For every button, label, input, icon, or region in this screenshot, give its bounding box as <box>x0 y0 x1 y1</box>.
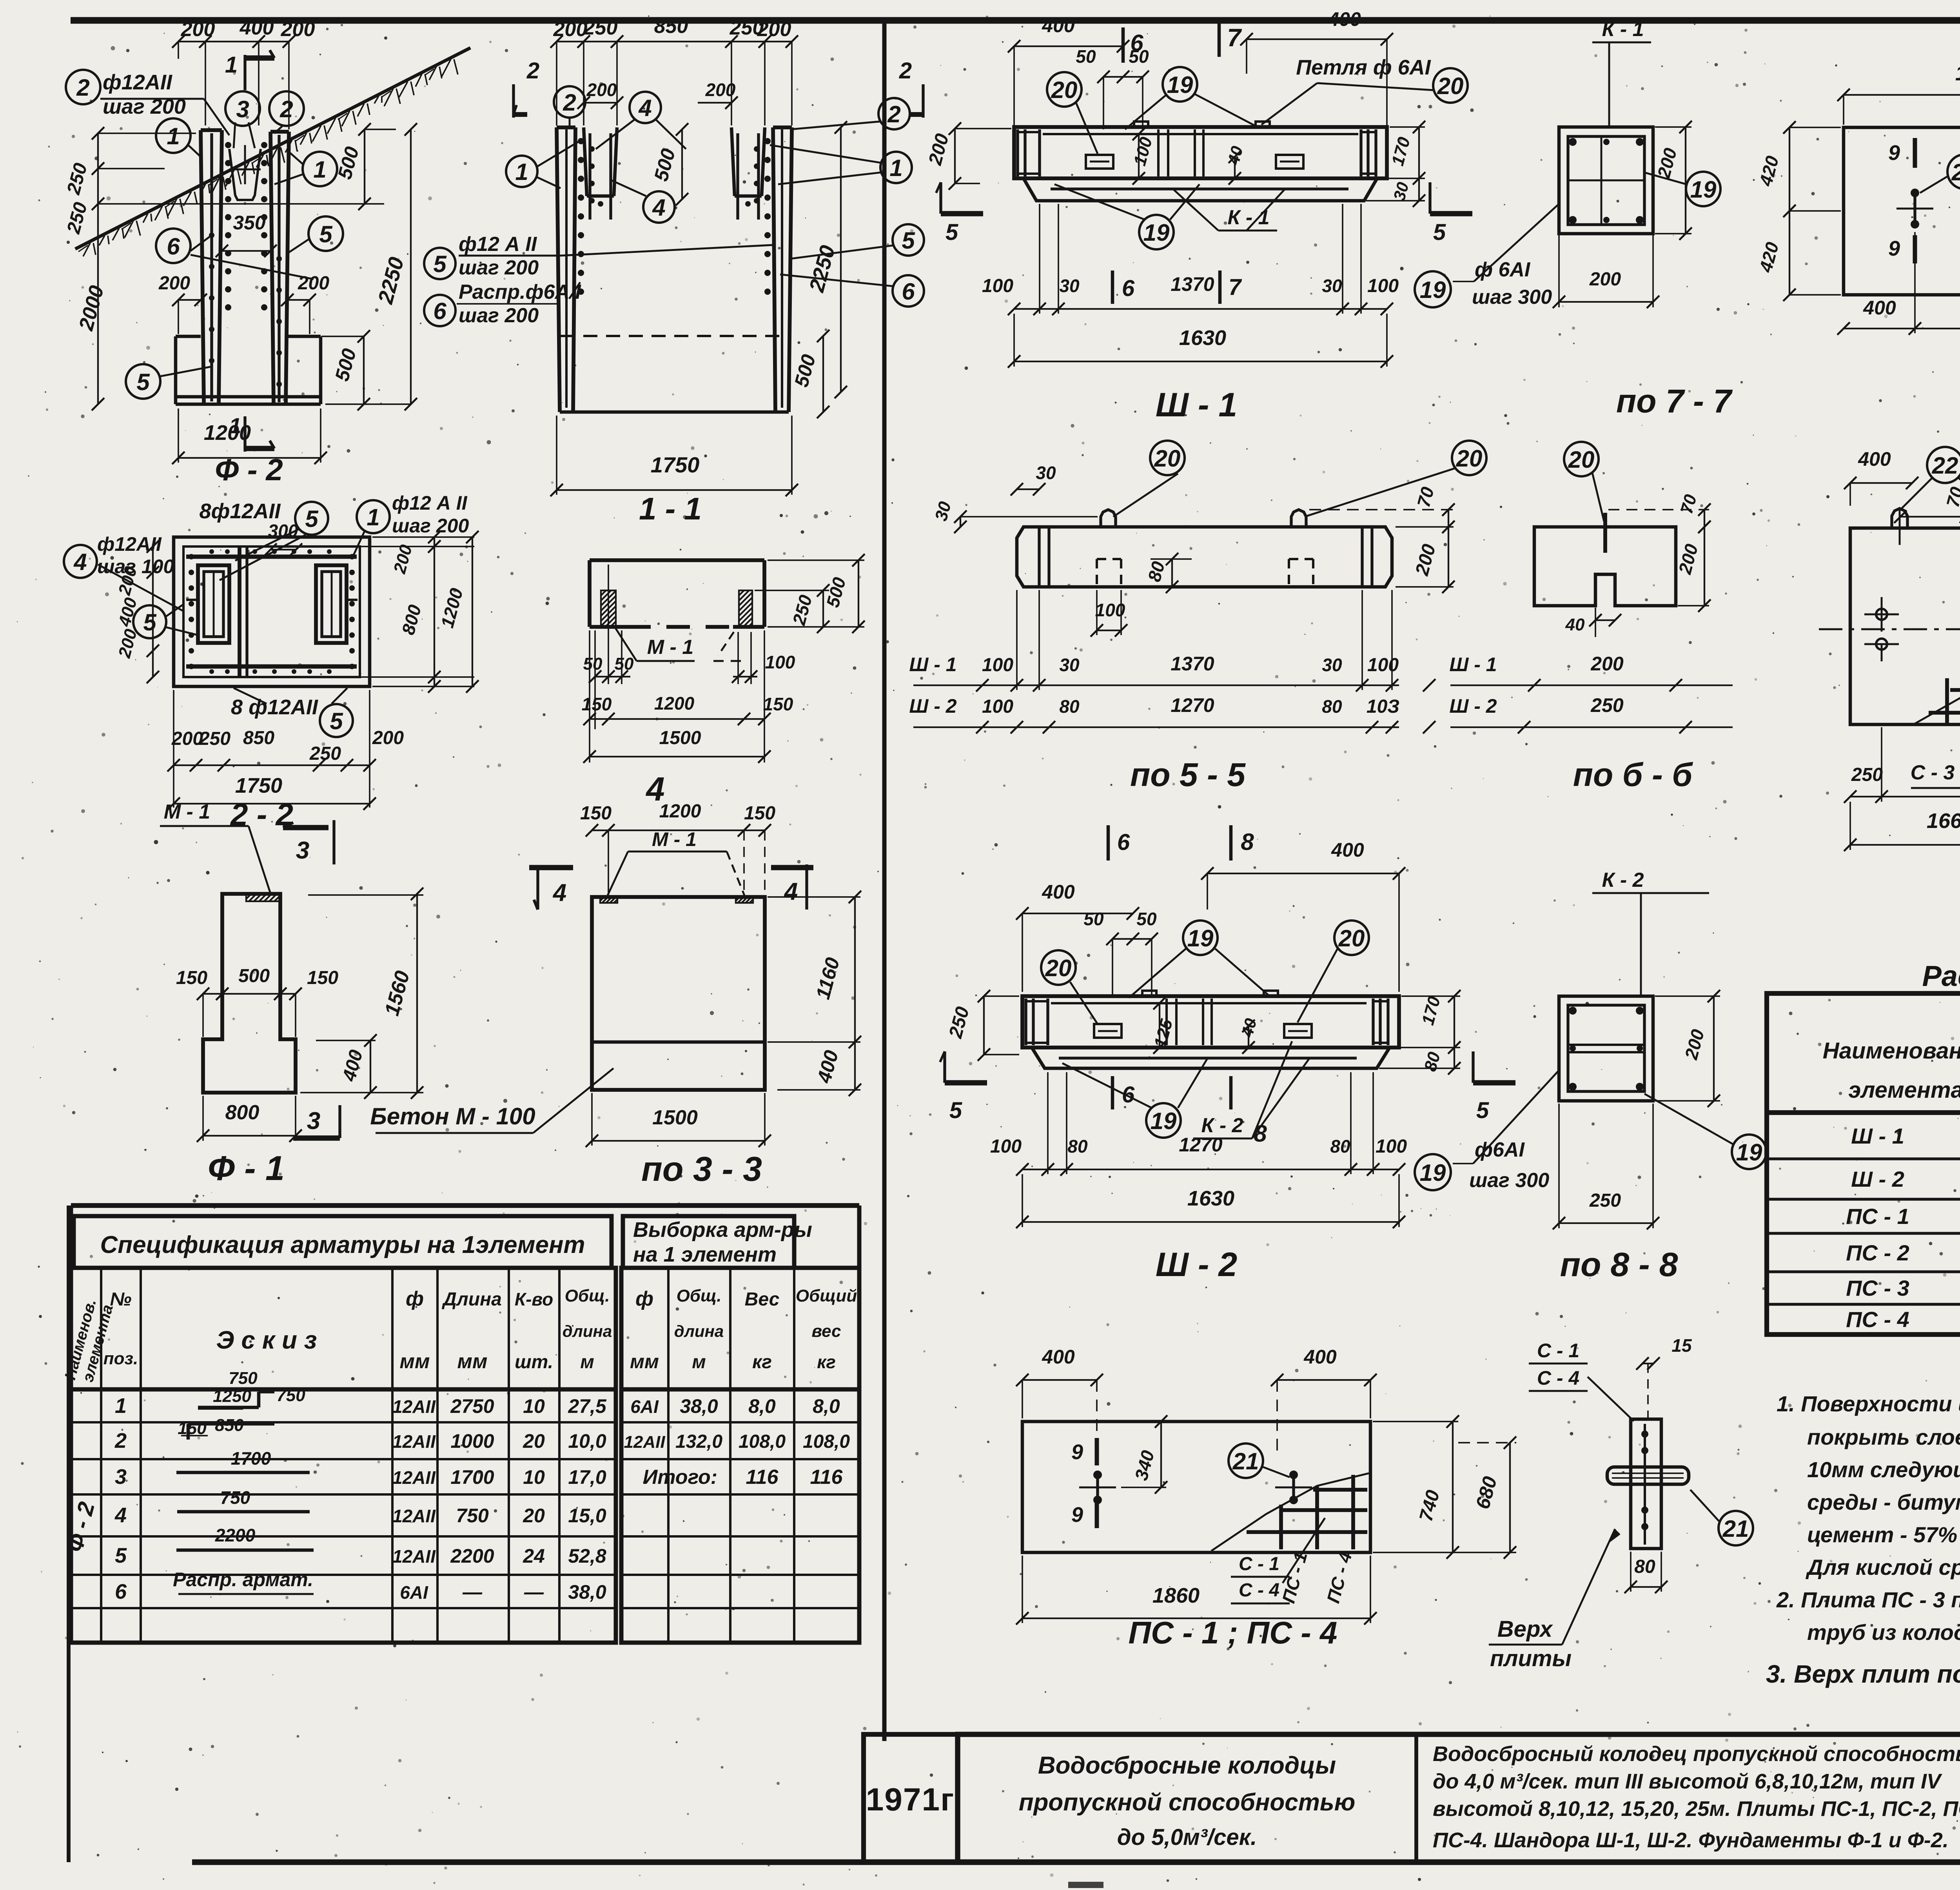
svg-text:80: 80 <box>1330 1136 1350 1157</box>
svg-text:кг: кг <box>817 1352 836 1372</box>
svg-text:5: 5 <box>330 708 343 734</box>
svg-text:200: 200 <box>586 80 617 100</box>
svg-text:200: 200 <box>281 18 315 41</box>
svg-text:200: 200 <box>757 18 791 41</box>
spec vyborka header box <box>623 1216 794 1268</box>
svg-text:Водосбросный колодец пропуск: Водосбросный колодец пропускной способно… <box>1433 1742 1960 1766</box>
svg-text:м: м <box>580 1352 594 1373</box>
1-1 callout 6 note <box>424 295 456 326</box>
svg-text:2: 2 <box>114 1429 127 1452</box>
svg-text:Ш - 1: Ш - 1 <box>1156 386 1237 424</box>
2-2 inner rect <box>183 546 360 677</box>
svg-text:7: 7 <box>1229 274 1242 300</box>
svg-text:1660: 1660 <box>1927 809 1960 833</box>
svg-text:20: 20 <box>1051 77 1078 103</box>
Ш-2 section 6 top <box>1107 825 1110 861</box>
svg-text:шт.: шт. <box>515 1352 553 1373</box>
svg-text:К - 2: К - 2 <box>1602 869 1644 891</box>
svg-text:плиты: плиты <box>1490 1646 1572 1671</box>
svg-text:19: 19 <box>1690 176 1717 203</box>
svg-text:по 8 - 8: по 8 - 8 <box>1560 1246 1678 1284</box>
svg-text:ф: ф <box>406 1287 424 1310</box>
svg-text:200: 200 <box>171 728 203 749</box>
svg-text:длина: длина <box>674 1322 724 1340</box>
raskhod table grid <box>1767 993 1960 1334</box>
M-1 plate bar <box>590 558 764 562</box>
1-1 callout 4 upper <box>630 92 661 123</box>
svg-text:Общ.: Общ. <box>677 1286 722 1305</box>
svg-text:750: 750 <box>456 1505 489 1527</box>
по5-5 end lines <box>1038 527 1040 587</box>
svg-text:М - 1: М - 1 <box>647 636 693 659</box>
ПС-3 hole bottom-left <box>1876 639 1887 650</box>
Ф-2 funnel between walls <box>229 149 261 200</box>
svg-text:Бетон М - 100: Бетон М - 100 <box>370 1103 535 1129</box>
Ф-2 section mark 1 bottom <box>243 416 246 452</box>
svg-text:1630: 1630 <box>1179 326 1226 350</box>
svg-text:К - 1: К - 1 <box>1602 18 1644 41</box>
по5-5 beam outline <box>1017 527 1392 587</box>
svg-text:400: 400 <box>1042 881 1075 903</box>
svg-text:150: 150 <box>176 968 207 988</box>
svg-text:К-во: К-во <box>515 1289 553 1309</box>
svg-text:мм: мм <box>457 1350 488 1373</box>
svg-text:3: 3 <box>115 1465 127 1489</box>
svg-text:Общ.: Общ. <box>565 1286 610 1305</box>
ПС-2 plate <box>1844 127 1960 295</box>
svg-text:6: 6 <box>115 1580 127 1603</box>
svg-text:150: 150 <box>763 694 793 714</box>
svg-text:4: 4 <box>73 549 87 575</box>
1-1 callout 6 right <box>893 275 924 307</box>
sheet top border <box>71 17 1960 24</box>
svg-text:6АI: 6АI <box>400 1582 428 1603</box>
ПС-3 plate <box>1850 528 1960 724</box>
svg-text:200: 200 <box>705 80 736 100</box>
svg-text:200: 200 <box>158 273 190 294</box>
svg-text:1: 1 <box>167 123 180 149</box>
по3-3 section 4 right <box>771 865 813 870</box>
svg-text:750: 750 <box>229 1369 258 1388</box>
svg-text:12АII: 12АII <box>392 1546 436 1567</box>
svg-text:—: — <box>462 1581 483 1603</box>
svg-text:шаг 200: шаг 200 <box>392 515 469 537</box>
Ф-2 callout 6 <box>156 229 191 263</box>
svg-text:1860: 1860 <box>1152 1584 1200 1607</box>
Ф-2 left wall <box>201 130 204 403</box>
svg-text:элемента: элемента <box>1848 1077 1960 1103</box>
svg-text:100: 100 <box>1367 655 1399 675</box>
svg-text:10: 10 <box>523 1395 545 1417</box>
svg-text:500: 500 <box>238 966 270 986</box>
svg-text:4: 4 <box>114 1503 127 1527</box>
svg-text:2: 2 <box>76 74 89 101</box>
Ш-2 section 6 bottom <box>1111 1076 1114 1109</box>
Ш-2 section 8 top <box>1229 825 1233 861</box>
svg-text:100: 100 <box>1376 1136 1407 1157</box>
svg-text:6АI: 6АI <box>630 1396 659 1417</box>
svg-text:6: 6 <box>167 233 180 260</box>
ПС-1 break and mesh <box>1211 1473 1369 1551</box>
1-1 bottom edge <box>560 410 789 414</box>
svg-text:по б - б: по б - б <box>1573 756 1693 793</box>
svg-text:1200: 1200 <box>654 693 695 714</box>
Ф-2 callout 5 lower <box>126 364 160 399</box>
svg-text:100: 100 <box>990 1136 1022 1157</box>
svg-text:24: 24 <box>523 1545 545 1567</box>
по3-3 section 4 left <box>529 865 573 870</box>
Ш-1 top rebar line <box>1043 133 1358 135</box>
svg-text:9: 9 <box>1071 1503 1083 1527</box>
Ш-2 middle stirrups <box>1165 999 1168 1045</box>
svg-text:5: 5 <box>1476 1098 1489 1123</box>
svg-text:200: 200 <box>553 18 588 41</box>
svg-text:ф6АI: ф6АI <box>1475 1138 1525 1161</box>
1-1 callout 2 left <box>554 86 585 118</box>
svg-text:400: 400 <box>1858 448 1891 470</box>
svg-text:50: 50 <box>1083 909 1104 929</box>
1-1 callout 1 left <box>506 156 537 187</box>
sheet left border (lower part) <box>67 1206 71 1862</box>
Ш-2 section 5 right <box>1472 1051 1474 1083</box>
Ш-2 anchor plate left <box>1094 1024 1122 1038</box>
svg-text:20: 20 <box>523 1430 545 1452</box>
2-2 rebar dots <box>189 554 194 559</box>
1-1 callout 5 right <box>893 224 924 256</box>
svg-text:по 7 - 7: по 7 - 7 <box>1616 383 1733 419</box>
svg-text:1: 1 <box>889 155 902 181</box>
2-2 callout 1 note <box>357 500 390 533</box>
svg-text:С - 3: С - 3 <box>1911 761 1955 784</box>
по7-7 callout 19 <box>1686 172 1720 206</box>
1-1 slot right <box>731 127 735 196</box>
svg-text:20: 20 <box>1568 447 1595 473</box>
Ш-2 section 8 bottom <box>1229 1076 1233 1109</box>
svg-text:на 1 элемент: на 1 элемент <box>633 1243 777 1266</box>
Ш-1 end block left <box>1016 129 1019 176</box>
по7-7 callout 19 note <box>1415 271 1451 307</box>
svg-text:Ш - 2: Ш - 2 <box>1156 1246 1237 1284</box>
svg-text:ф: ф <box>635 1287 653 1310</box>
svg-text:Ш - 1: Ш - 1 <box>1851 1124 1904 1148</box>
svg-text:1: 1 <box>367 504 379 530</box>
svg-text:8: 8 <box>1254 1120 1267 1147</box>
svg-text:Ш - 2: Ш - 2 <box>909 695 956 717</box>
2-2 callout 5 top <box>295 502 328 535</box>
sheet bottom border <box>192 1859 1960 1865</box>
svg-text:2: 2 <box>563 89 576 116</box>
svg-text:3: 3 <box>236 96 249 122</box>
svg-text:С - 4: С - 4 <box>1239 1580 1279 1601</box>
svg-text:Расход материалов на 1 элем: Расход материалов на 1 элемент <box>1922 960 1960 992</box>
svg-text:5: 5 <box>902 227 915 254</box>
Ш-1 callout 20 right <box>1433 68 1468 103</box>
smudge bottom-left <box>1068 1882 1103 1888</box>
svg-text:пропускной способностью: пропускной способностью <box>1019 1789 1356 1816</box>
С-1 center rebar <box>1644 1424 1646 1545</box>
svg-text:шаг 300: шаг 300 <box>1472 286 1552 309</box>
svg-text:19: 19 <box>1420 277 1446 303</box>
Ш-1 beam outline <box>1014 127 1387 178</box>
svg-text:100: 100 <box>765 652 795 672</box>
svg-text:400: 400 <box>240 16 274 39</box>
Ш-1 middle stirrups <box>1157 129 1160 176</box>
svg-text:ПС-4. Шандора Ш-1, Ш-2. Фун: ПС-4. Шандора Ш-1, Ш-2. Фундаменты Ф-1 и… <box>1433 1828 1949 1852</box>
по6-6 block outline <box>1534 527 1676 606</box>
title block 1971 box <box>864 1734 958 1862</box>
svg-text:80: 80 <box>1634 1556 1655 1577</box>
1-1 wall rebar verticals <box>565 129 568 408</box>
по7-7 outer square <box>1559 127 1653 234</box>
Ш-2 bottom rebar line <box>1059 1057 1357 1059</box>
Ф-2 base slab <box>176 335 201 338</box>
Ш-2 section 5 left <box>943 1051 946 1083</box>
Ш-1 bottom rebar line <box>1051 187 1348 190</box>
svg-text:по 5 - 5: по 5 - 5 <box>1130 756 1246 793</box>
svg-text:1: 1 <box>313 156 326 183</box>
1-1 slot hairpin rebars <box>588 133 591 220</box>
svg-text:2200: 2200 <box>215 1525 256 1545</box>
svg-text:50: 50 <box>1136 909 1157 929</box>
svg-text:5: 5 <box>136 369 150 395</box>
svg-text:мм: мм <box>400 1350 430 1373</box>
по7-7 stirrup ticks <box>1568 180 1644 182</box>
по5-5 callout 20 left <box>1150 441 1185 475</box>
по3-3 inner line <box>592 1040 765 1044</box>
svg-text:400: 400 <box>1042 1346 1075 1368</box>
ПС-1 rebar pair <box>1093 1471 1102 1479</box>
spec table header box <box>74 1216 612 1268</box>
svg-text:400: 400 <box>1042 15 1075 36</box>
svg-text:—: — <box>524 1581 544 1603</box>
svg-text:Ф - 1: Ф - 1 <box>208 1149 285 1187</box>
svg-text:Верх: Верх <box>1497 1616 1553 1642</box>
svg-text:1000: 1000 <box>450 1430 494 1452</box>
svg-text:750: 750 <box>220 1487 250 1508</box>
1-1 callout 1 right <box>880 152 912 183</box>
svg-text:2: 2 <box>899 58 912 84</box>
Ф-2 callout 5 right <box>309 216 343 251</box>
Ф-2 callout 1 right <box>303 152 337 186</box>
svg-text:1660: 1660 <box>1955 62 1960 85</box>
svg-text:200: 200 <box>1589 269 1621 290</box>
svg-text:Ш - 1: Ш - 1 <box>1449 654 1497 675</box>
svg-text:1750: 1750 <box>235 774 282 797</box>
1-1 callout 4 lower <box>643 191 675 223</box>
svg-text:19: 19 <box>1420 1160 1446 1186</box>
ПС-1 section 9 marks <box>1095 1438 1099 1465</box>
1-1 dashed bottom line <box>561 335 788 337</box>
по3-3 outline <box>592 897 765 1090</box>
С-1 clamp plate <box>1607 1467 1689 1484</box>
svg-text:8,0: 8,0 <box>748 1395 776 1417</box>
svg-text:22: 22 <box>1932 452 1958 479</box>
svg-text:1700: 1700 <box>231 1448 271 1469</box>
Ш-1 section 6 top <box>1122 27 1125 63</box>
svg-text:Длина: Длина <box>441 1289 502 1310</box>
svg-text:50: 50 <box>583 654 603 674</box>
Ш-2 anchor plate right <box>1284 1024 1312 1038</box>
svg-text:21: 21 <box>1232 1448 1259 1474</box>
svg-text:400: 400 <box>1863 297 1896 319</box>
1-1 right wall <box>789 127 792 412</box>
svg-text:12АII: 12АII <box>392 1506 436 1526</box>
Ш-2 callout 19 top <box>1183 920 1218 955</box>
svg-text:1500: 1500 <box>659 728 701 748</box>
svg-text:30: 30 <box>1036 463 1056 483</box>
paper speckle texture <box>1707 62 1708 63</box>
svg-text:12АII: 12АII <box>392 1396 436 1417</box>
svg-text:4: 4 <box>784 878 798 905</box>
svg-text:80: 80 <box>1067 1136 1088 1157</box>
svg-text:7: 7 <box>1227 24 1242 52</box>
svg-text:2200: 2200 <box>450 1545 494 1567</box>
Ф-2 callout 2 right <box>269 91 304 126</box>
svg-text:Выборка арм-ры: Выборка арм-ры <box>633 1218 812 1242</box>
svg-text:750: 750 <box>276 1386 305 1405</box>
svg-text:20: 20 <box>1437 73 1464 99</box>
svg-text:1: 1 <box>115 1394 127 1418</box>
svg-text:цемент - 57%: цемент - 57% <box>1807 1522 1957 1547</box>
svg-text:38,0: 38,0 <box>680 1395 718 1417</box>
svg-text:80: 80 <box>1059 696 1080 717</box>
svg-text:1 - 1: 1 - 1 <box>639 491 702 526</box>
svg-text:ПС - 3: ПС - 3 <box>1846 1276 1909 1300</box>
Ф-2 callout 1 left <box>156 118 191 153</box>
2-2 callout 4 note <box>64 545 97 578</box>
ПС-2 rebar pair left <box>1911 189 1919 197</box>
svg-text:покрыть слоем горячей ас: покрыть слоем горячей асфальтовой мастик… <box>1807 1425 1960 1449</box>
svg-text:200: 200 <box>1590 653 1624 675</box>
title block cell dividers <box>1414 1734 1418 1862</box>
Ш-2 lifting tabs <box>1142 991 1156 996</box>
svg-text:ПС - 4: ПС - 4 <box>1846 1307 1909 1332</box>
svg-text:К - 1: К - 1 <box>1227 206 1269 229</box>
svg-text:19: 19 <box>1167 72 1193 98</box>
svg-text:Ф - 2: Ф - 2 <box>215 452 283 487</box>
svg-text:108,0: 108,0 <box>803 1431 850 1452</box>
по7-7 inner square <box>1568 136 1644 225</box>
svg-text:м: м <box>692 1352 706 1373</box>
ПС-3 centerline <box>1819 628 1960 630</box>
svg-text:до 5,0м³/сек.: до 5,0м³/сек. <box>1117 1825 1257 1850</box>
svg-text:400: 400 <box>1331 839 1364 861</box>
2-2 right window <box>316 565 347 643</box>
svg-text:30: 30 <box>1322 276 1342 296</box>
Ш-1 end block right <box>1374 129 1377 176</box>
svg-text:400: 400 <box>1328 8 1361 30</box>
svg-text:38,0: 38,0 <box>568 1581 606 1603</box>
svg-text:350: 350 <box>233 212 266 234</box>
2-2 left window <box>198 565 229 643</box>
svg-text:1200: 1200 <box>659 801 701 822</box>
svg-text:100: 100 <box>982 276 1013 296</box>
svg-text:6: 6 <box>433 298 446 324</box>
svg-text:М - 1: М - 1 <box>652 828 697 850</box>
svg-text:100: 100 <box>982 696 1013 717</box>
svg-text:5: 5 <box>1433 220 1446 245</box>
Ш-2 end block right <box>1387 999 1389 1045</box>
Ф-2 section mark 1 top <box>243 55 246 90</box>
svg-text:30: 30 <box>1322 655 1342 675</box>
svg-text:21: 21 <box>1722 1516 1749 1542</box>
1-1 callout 5 note <box>424 248 456 279</box>
svg-text:1250: 1250 <box>213 1387 251 1406</box>
svg-text:1700: 1700 <box>450 1466 494 1488</box>
figure Ф-2 ground slope line with hatching <box>75 48 470 249</box>
Ш-1 bottom lip <box>1024 178 1377 201</box>
svg-text:5: 5 <box>319 221 333 247</box>
svg-text:20: 20 <box>1154 445 1181 472</box>
Ф-1 outline <box>203 894 296 1093</box>
по5-5 lifting loop right <box>1291 510 1306 527</box>
по5-5 dashed recess left <box>1097 558 1121 560</box>
svg-text:1. Поверхности шандор, с: 1. Поверхности шандор, соприкасающиеся м… <box>1777 1391 1960 1416</box>
Ш-1 lifting tabs <box>1134 122 1148 127</box>
по6-6 callout 20 <box>1564 442 1599 476</box>
svg-text:6: 6 <box>1117 830 1130 855</box>
ПС-1 plate <box>1022 1422 1370 1552</box>
svg-text:ф12АII: ф12АII <box>103 71 172 94</box>
svg-text:12АII: 12АII <box>624 1432 665 1452</box>
svg-text:4: 4 <box>552 879 566 906</box>
Ф-1 section 3 bottom <box>293 1135 340 1140</box>
svg-text:20: 20 <box>1045 955 1072 981</box>
Ш-1 section 5 left <box>939 182 942 214</box>
svg-text:Итого:: Итого: <box>643 1466 717 1489</box>
2-2 outer rect <box>174 537 370 686</box>
svg-text:30: 30 <box>1059 276 1080 296</box>
svg-text:150: 150 <box>744 803 775 824</box>
ПС-1 rebar pair right <box>1289 1471 1298 1479</box>
Ш-2 bottom lip <box>1032 1048 1390 1068</box>
С-1 strip body <box>1631 1419 1661 1549</box>
svg-text:№: № <box>110 1289 131 1310</box>
svg-text:2: 2 <box>887 101 900 127</box>
svg-text:С - 1: С - 1 <box>1239 1554 1279 1574</box>
svg-text:400: 400 <box>1303 1346 1337 1368</box>
svg-text:5: 5 <box>433 251 447 277</box>
svg-text:2750: 2750 <box>450 1395 494 1417</box>
svg-text:200: 200 <box>372 728 404 748</box>
svg-text:Ш - 1: Ш - 1 <box>909 654 956 675</box>
svg-text:Ш - 2: Ш - 2 <box>1851 1167 1904 1191</box>
svg-text:9: 9 <box>1071 1440 1083 1464</box>
svg-text:9: 9 <box>1888 237 1900 260</box>
svg-text:27,5: 27,5 <box>568 1395 607 1417</box>
Ш-2 callout 20 left <box>1041 950 1076 985</box>
svg-text:5: 5 <box>305 506 319 532</box>
2-2 callout 5 left <box>133 605 166 638</box>
svg-text:132,0: 132,0 <box>675 1431 722 1452</box>
svg-text:800: 800 <box>225 1101 260 1124</box>
2-2 window inner bars <box>213 572 215 637</box>
1-1 slot left <box>584 127 587 196</box>
svg-text:8: 8 <box>1241 829 1254 855</box>
Ш-1 section 5 right <box>1428 182 1431 214</box>
2-2 center bars <box>238 546 241 677</box>
1-1 left wall <box>557 127 560 412</box>
svg-text:9: 9 <box>1888 141 1900 165</box>
svg-text:по 3 - 3: по 3 - 3 <box>641 1149 762 1188</box>
svg-text:шаг 300: шаг 300 <box>1469 1169 1549 1192</box>
svg-text:150: 150 <box>580 803 612 824</box>
Ф-2 rebar dots <box>225 142 231 148</box>
svg-text:150: 150 <box>307 968 338 988</box>
svg-text:длина: длина <box>563 1322 612 1340</box>
Ф-2 rebar verticals <box>210 133 213 401</box>
по7-7 corner bars <box>1569 138 1577 146</box>
